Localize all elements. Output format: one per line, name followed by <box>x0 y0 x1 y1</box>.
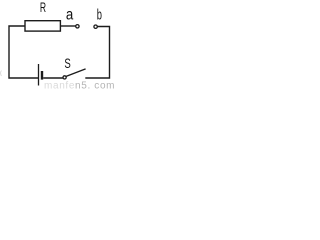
wire: left loop from resistor left pin, down left side, to battery negative plate <box>9 26 39 78</box>
svg-text:a: a <box>66 7 74 24</box>
wire: resistor right pin to terminal a <box>61 25 76 27</box>
svg-text:R: R <box>40 0 46 15</box>
switch S: open blade arm <box>66 69 86 77</box>
battery cell: short thick negative plate <box>41 71 43 80</box>
terminal b (open circle) <box>94 25 97 28</box>
watermark fragment at left edge <box>1 71 2 77</box>
svg-text:S: S <box>64 55 70 71</box>
wire: battery positive plate to switch moving contact <box>43 77 63 79</box>
switch S: moving contact pivot circle <box>63 76 66 79</box>
battery cell: long thin positive plate <box>38 64 40 86</box>
resistor R <box>25 21 60 31</box>
svg-text:b: b <box>97 7 102 24</box>
svg-text:manfen5. com: manfen5. com <box>44 80 114 90</box>
wire: terminal b, down right side, to switch fixed contact <box>85 27 109 79</box>
terminal a (open circle) <box>76 25 79 28</box>
